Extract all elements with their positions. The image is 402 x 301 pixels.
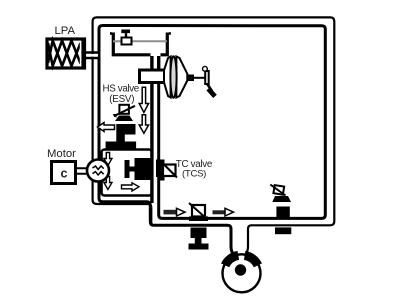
HS valve stem and base <box>116 135 125 142</box>
fluid level line <box>113 40 167 42</box>
HS valve (ESV) symbol <box>106 105 137 149</box>
arrow down 4 (pump outlet) <box>104 177 112 190</box>
svg-text:c: c <box>61 167 68 181</box>
TC valve (TCS) symbol <box>156 160 177 181</box>
arrow right (TCS row 1) <box>164 208 186 216</box>
svg-text:(TCS): (TCS) <box>182 168 206 179</box>
master cylinder <box>140 70 166 83</box>
booster <box>164 56 187 98</box>
TCS cut valve (on line) <box>189 203 208 221</box>
motor M1 <box>52 162 76 184</box>
piston bar <box>81 41 84 68</box>
caliper right pad <box>245 255 258 265</box>
svg-text:LPA: LPA <box>55 25 76 37</box>
spring zigzag <box>48 41 81 67</box>
HECU boundary box (thin outer) <box>93 17 335 255</box>
brake pedal <box>203 66 217 98</box>
wire: LPA stub <box>86 53 100 59</box>
svg-text:Motor: Motor <box>47 148 76 160</box>
wheel brake <box>223 254 261 292</box>
arrow down 1 (from master cylinder) <box>139 87 148 112</box>
pushrod block <box>188 75 195 82</box>
arrow right (pump box) <box>122 183 140 191</box>
pump element <box>125 160 130 178</box>
wire: pushrod <box>194 77 206 79</box>
pump P1 (circle) <box>87 160 109 182</box>
wire: left vertical pipe V1 <box>150 83 153 203</box>
svg-text:(ESV): (ESV) <box>109 94 134 105</box>
arrow right (TCS row 2) <box>213 208 234 216</box>
reservoir <box>110 30 171 55</box>
wheel hub dot <box>235 264 246 275</box>
wire: motor shaft <box>76 168 89 173</box>
accumulator LPA <box>47 39 99 68</box>
HS valve seat (black bowl) <box>115 116 133 122</box>
main pipe loop (thick inner) <box>99 26 325 256</box>
damper (below TCS valve) <box>189 228 209 250</box>
reservoir cap <box>110 32 112 35</box>
caliper left pad <box>225 255 238 265</box>
HS valve body <box>116 124 135 135</box>
arrow down 3 (pump inlet) <box>104 153 112 166</box>
pump box <box>102 150 152 196</box>
rear wheel valve symbol <box>270 185 291 235</box>
arrow (left, to LPA) <box>98 123 115 132</box>
arrow down 2 <box>139 115 148 133</box>
wire: reservoir to master cylinder (double pipe) <box>152 56 159 70</box>
